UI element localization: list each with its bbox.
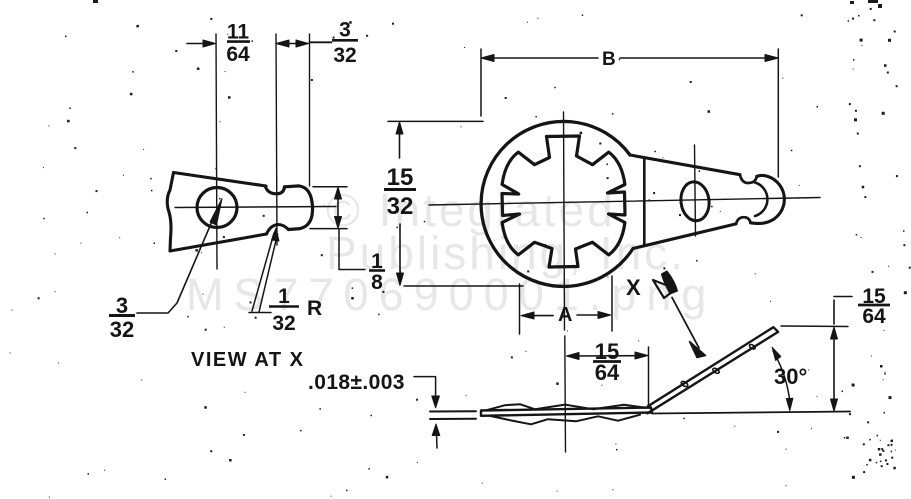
arm ellipse hole	[679, 180, 712, 222]
left view hole	[197, 188, 237, 228]
left view horizontal centerline	[175, 207, 336, 208]
B right extension line	[777, 49, 779, 177]
watermark line 3	[186, 269, 716, 321]
left view vertical centerline / 11-64 extension	[216, 34, 217, 269]
svg-text:R: R	[307, 297, 322, 320]
edge view strip top	[481, 408, 652, 416]
B dimension line	[485, 57, 598, 59]
arm end cap inner arc	[755, 183, 767, 217]
dim 11/64 arrow	[187, 43, 211, 45]
dim 3/32 arrows	[279, 43, 304, 45]
scan noise	[582, 14, 584, 16]
tip extension line	[781, 325, 848, 328]
bulb height extension lines	[313, 186, 347, 188]
arm top notch	[740, 175, 757, 183]
1/8 leader	[339, 229, 365, 270]
svg-text:64: 64	[862, 305, 886, 328]
bent strip	[648, 327, 779, 413]
left view bulb	[285, 186, 313, 230]
bent strip tick marks	[680, 380, 688, 387]
baseline	[652, 412, 850, 414]
watermark line 2	[326, 226, 686, 280]
arm end cap outer	[751, 175, 785, 223]
main view outer circle	[481, 121, 633, 286]
3/32 hole leader	[137, 219, 213, 313]
A right extension line	[611, 276, 613, 331]
svg-text:A: A	[558, 304, 572, 326]
15/32 top extension line	[388, 120, 483, 122]
15/64 bottom dim	[570, 355, 644, 357]
arm bottom notch	[736, 217, 751, 224]
svg-text:X: X	[626, 275, 641, 300]
main view horizontal centerline	[429, 198, 820, 206]
svg-text:VIEW AT X: VIEW AT X	[191, 349, 305, 371]
left view neck top notch	[265, 186, 284, 194]
svg-text:30°: 30°	[774, 364, 807, 389]
1/32 R leader	[252, 233, 274, 311]
svg-text:11: 11	[227, 21, 250, 44]
15/64 bottom right extension line	[648, 347, 650, 405]
X view flag	[653, 280, 676, 298]
extension line neck	[276, 34, 277, 245]
svg-text:8: 8	[371, 271, 383, 294]
edge view teeth zigzag below	[490, 415, 640, 425]
B left extension line	[480, 49, 482, 116]
15/64 right dim	[833, 300, 835, 324]
.018 leader and arrows	[414, 377, 436, 396]
svg-text:64: 64	[226, 43, 250, 66]
svg-text:32: 32	[387, 193, 414, 220]
arm bottom edge	[633, 224, 736, 249]
svg-text:B: B	[602, 49, 616, 70]
left view neck bottom notch	[267, 225, 289, 235]
svg-text:.018±.003: .018±.003	[308, 371, 405, 394]
15/32 bottom extension line	[404, 285, 523, 287]
left view outline	[167, 173, 266, 252]
arm bend line	[643, 158, 646, 247]
main view vertical centerline	[564, 112, 565, 330]
edge view teeth zigzag above	[486, 404, 646, 410]
15/32 dim line and arrows	[399, 126, 401, 158]
X view leader arrow	[672, 298, 699, 349]
svg-text:64: 64	[595, 360, 620, 385]
svg-text:32: 32	[110, 317, 134, 342]
svg-text:32: 32	[333, 44, 356, 67]
svg-text:3: 3	[339, 19, 351, 42]
30 degree arc arrows	[773, 351, 790, 403]
bulb height dim line and arrows	[337, 191, 339, 225]
arm top edge	[630, 155, 740, 175]
edge view thin tail piece	[430, 410, 476, 412]
main view spline hole	[502, 136, 625, 267]
watermark line 1	[326, 183, 616, 237]
A dim arrows	[525, 315, 553, 317]
extension line bulb right	[309, 34, 311, 186]
svg-text:15: 15	[387, 164, 414, 191]
svg-text:32: 32	[272, 312, 295, 335]
ellipse hole vertical centerline	[695, 145, 696, 236]
A left extension line	[519, 284, 521, 334]
svg-text:1: 1	[278, 285, 290, 308]
